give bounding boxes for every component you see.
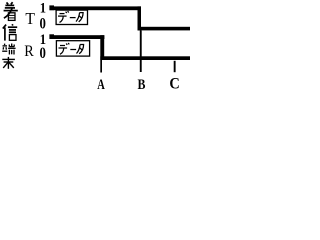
svg-text:A: A [97,76,105,92]
data box on R line [56,41,89,56]
T waveform low segment [138,27,191,31]
time marker line B [140,30,142,72]
T waveform high segment [50,6,142,10]
time marker tick A [100,60,102,73]
label chakushin kanji SHIN [3,24,17,40]
label tanmatsu kanji MATSU [2,57,15,69]
svg-text:1: 1 [40,0,46,16]
T waveform start step [49,5,54,10]
data box on T line [56,10,87,24]
label chakushin (incoming) kanji CHAKU [4,2,18,20]
label tanmatsu (terminal) kanji TAN [2,44,15,55]
R waveform start step [49,34,54,39]
data text (de-ta) in T box [58,11,83,22]
svg-text:T: T [25,9,35,29]
data text (de-ta) in R box [59,43,84,54]
R waveform low segment [100,56,190,60]
R waveform high segment [50,35,105,39]
svg-text:0: 0 [40,45,46,63]
T waveform falling edge at B [138,6,142,30]
svg-text:C: C [169,75,179,93]
time marker tick C [174,61,176,72]
svg-text:R: R [24,44,34,61]
R waveform falling edge at A [100,35,104,60]
svg-text:B: B [138,76,146,92]
